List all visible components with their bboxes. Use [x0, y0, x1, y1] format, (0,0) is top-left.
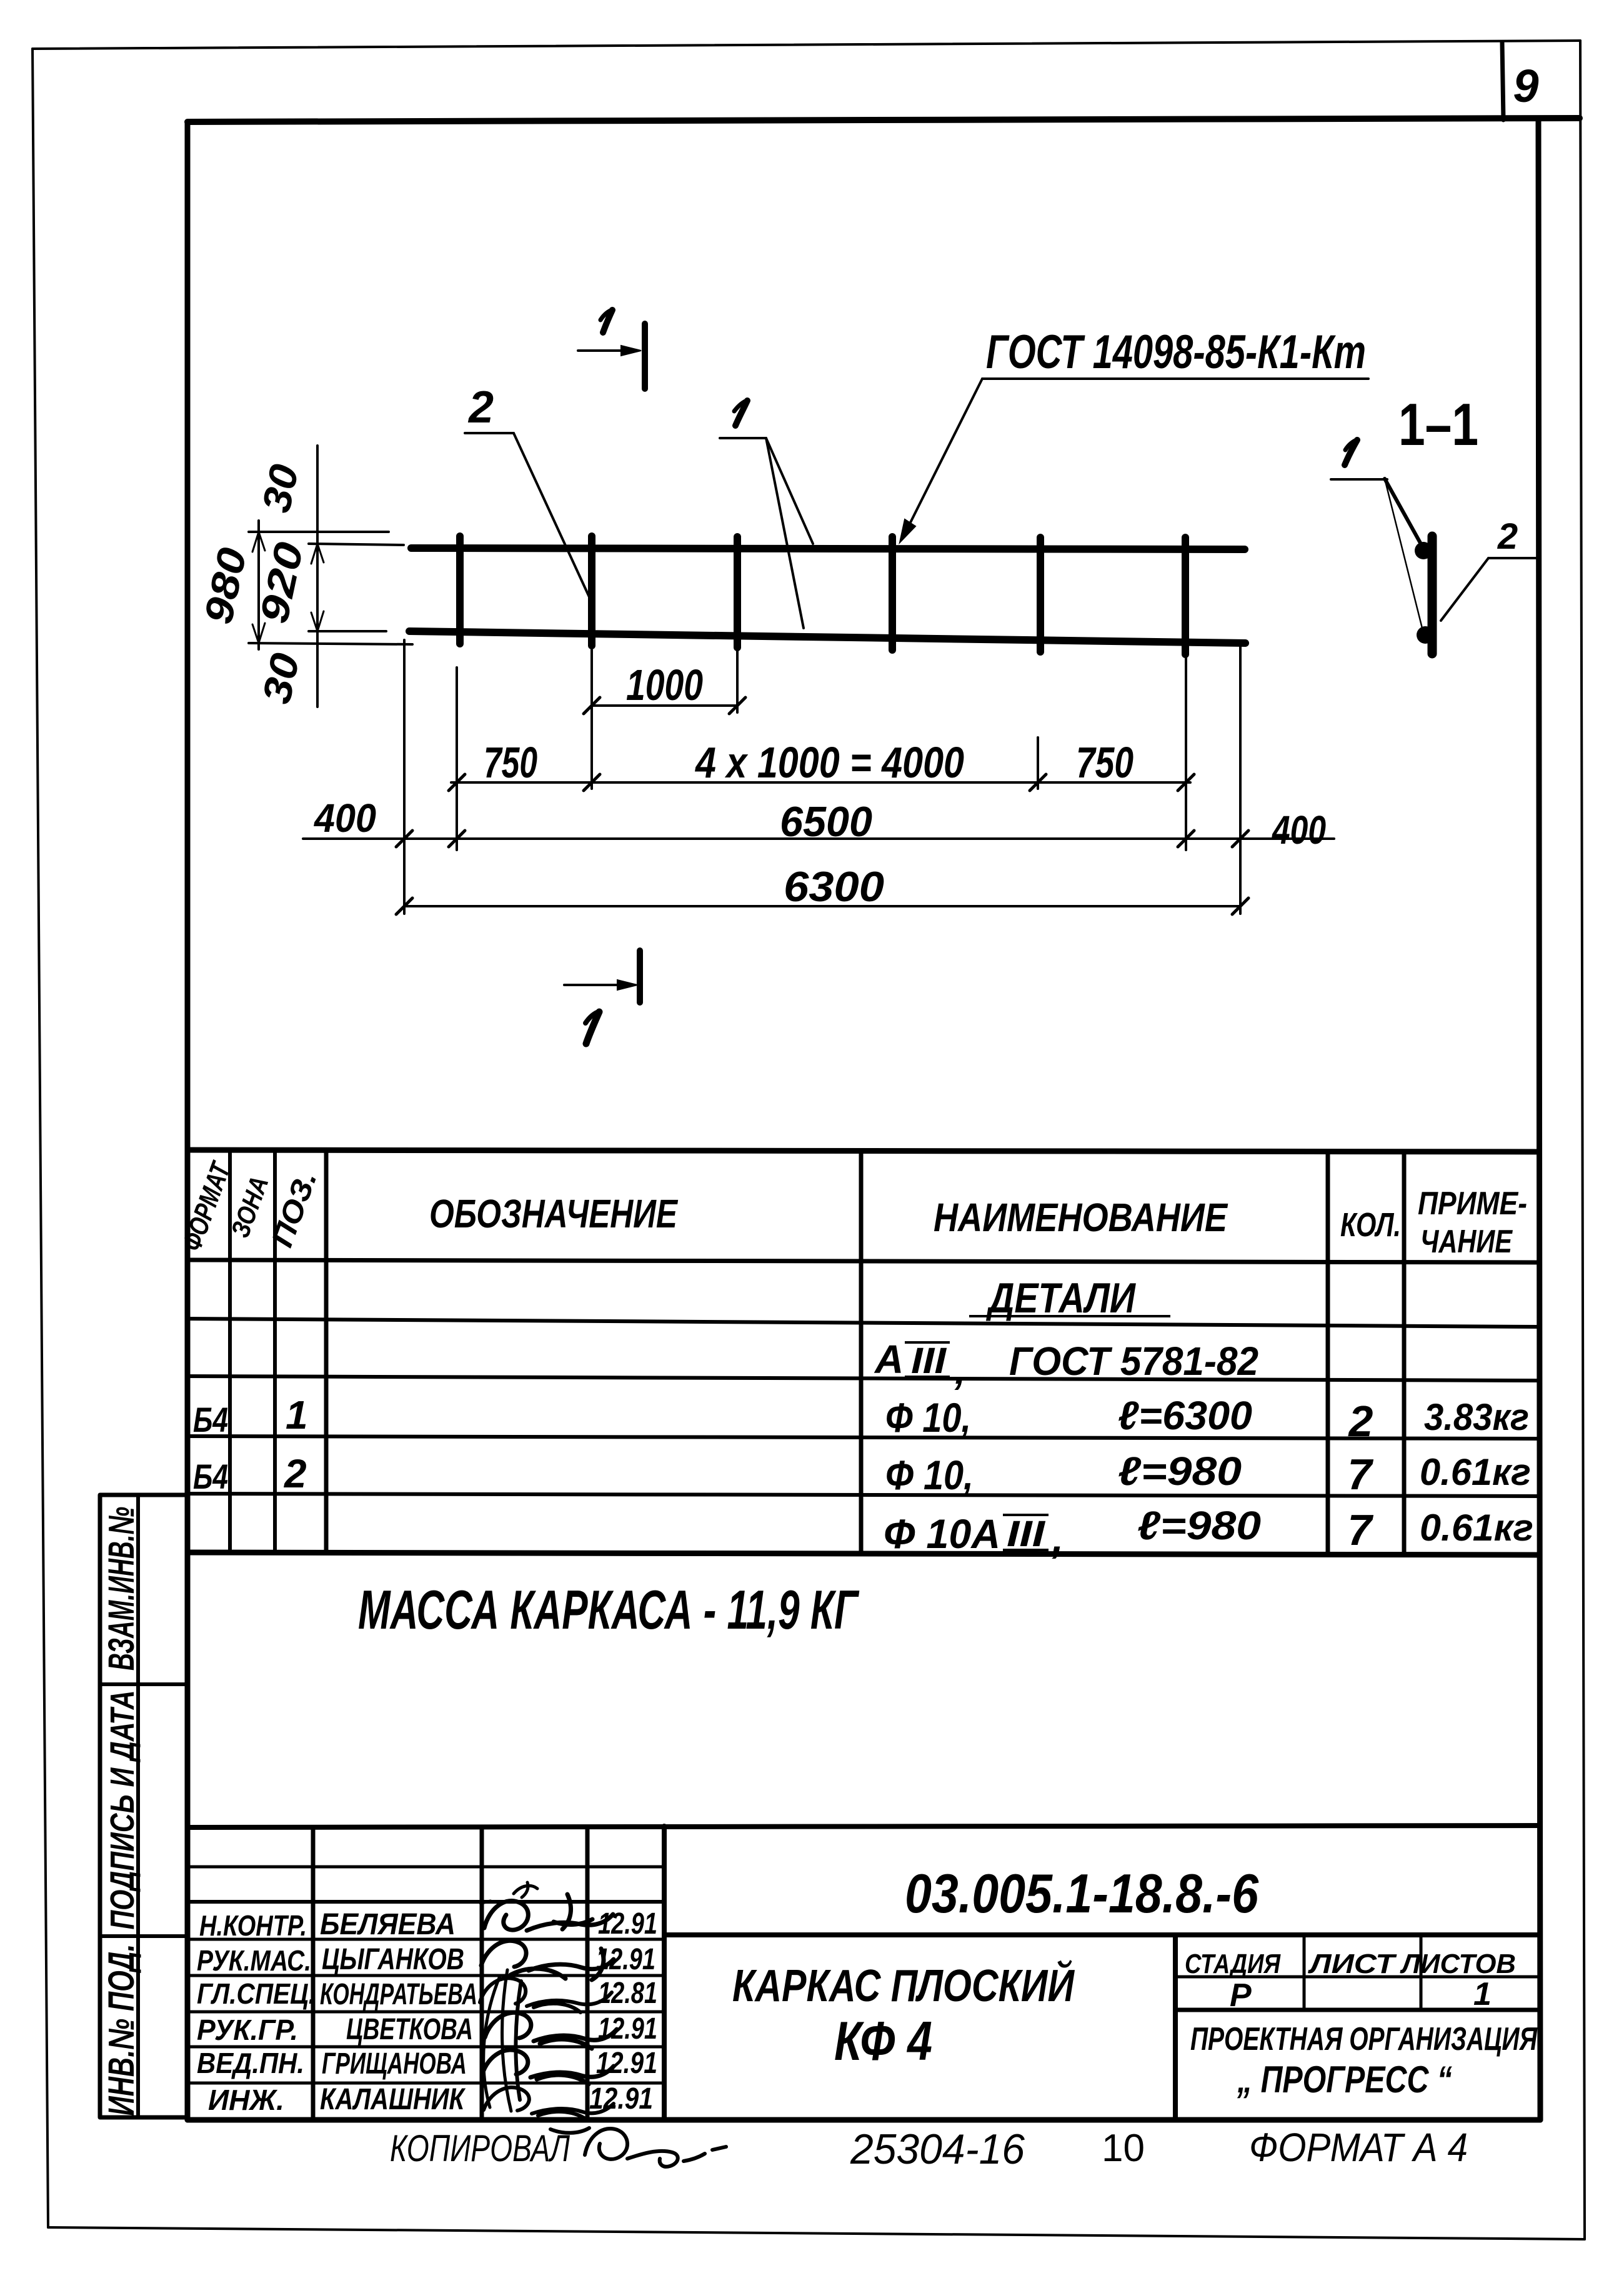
svg-text:400: 400: [1271, 807, 1326, 852]
svg-text:Ф 10А: Ф 10А: [884, 1511, 1000, 1557]
svg-text:СТАДИЯ: СТАДИЯ: [1185, 1949, 1281, 1979]
svg-text:1000: 1000: [626, 661, 703, 709]
svg-text:КАРКАС ПЛОСКИЙ: КАРКАС ПЛОСКИЙ: [732, 1959, 1075, 2011]
svg-text:А: А: [874, 1337, 904, 1382]
svg-text:,: ,: [954, 1347, 966, 1392]
svg-text:ЧАНИЕ: ЧАНИЕ: [1420, 1224, 1513, 1260]
svg-text:7: 7: [1348, 1506, 1374, 1554]
svg-text:1–1: 1–1: [1398, 391, 1478, 458]
svg-text:3.83кг: 3.83кг: [1424, 1396, 1529, 1438]
svg-text:ПРИМЕ-: ПРИМЕ-: [1418, 1186, 1527, 1222]
svg-text:ОБОЗНАЧЕНИЕ: ОБОЗНАЧЕНИЕ: [429, 1191, 679, 1236]
svg-text:2: 2: [1497, 516, 1518, 557]
svg-text:КФ 4: КФ 4: [834, 2010, 932, 2072]
svg-text:ГРИЩАНОВА: ГРИЩАНОВА: [322, 2047, 467, 2081]
svg-text:12.81: 12.81: [598, 1977, 657, 2010]
svg-text:КОЛ.: КОЛ.: [1340, 1206, 1401, 1244]
svg-text:400: 400: [313, 796, 376, 841]
svg-text:ГОСТ 5781-82: ГОСТ 5781-82: [1009, 1339, 1258, 1384]
svg-text:ЦЫГАНКОВ: ЦЫГАНКОВ: [322, 1943, 464, 1976]
svg-text:ДЕТАЛИ: ДЕТАЛИ: [986, 1274, 1137, 1322]
svg-text:2: 2: [1348, 1397, 1373, 1446]
svg-text:12.91: 12.91: [598, 1907, 657, 1941]
svg-text:1: 1: [286, 1392, 308, 1437]
svg-text:9: 9: [1513, 60, 1538, 112]
svg-text:III: III: [1007, 1514, 1046, 1554]
svg-text:25304-16: 25304-16: [850, 2126, 1025, 2173]
svg-text:6500: 6500: [780, 798, 872, 846]
svg-text:ЦВЕТКОВА: ЦВЕТКОВА: [346, 2013, 473, 2046]
svg-text:Р: Р: [1230, 1977, 1252, 2014]
svg-text:Б4: Б4: [193, 1400, 228, 1439]
svg-text:ГЛ.СПЕЦ.: ГЛ.СПЕЦ.: [197, 1977, 316, 2010]
svg-text:МАССА КАРКАСА - 11,9 КГ: МАССА КАРКАСА - 11,9 КГ: [358, 1579, 860, 1641]
svg-text:6300: 6300: [784, 863, 884, 911]
svg-text:7: 7: [1348, 1450, 1374, 1499]
svg-text:Ф 10,: Ф 10,: [885, 1394, 971, 1441]
svg-text:„ ПРОГРЕСС “: „ ПРОГРЕСС “: [1237, 2059, 1452, 2101]
svg-text:ВЕД.ПН.: ВЕД.ПН.: [197, 2047, 304, 2079]
svg-text:КАЛАШНИК: КАЛАШНИК: [320, 2083, 466, 2116]
svg-text:РУК.МАС.: РУК.МАС.: [197, 1944, 311, 1977]
svg-text:БЕЛЯЕВА: БЕЛЯЕВА: [320, 1908, 456, 1941]
svg-text:Ф 10,: Ф 10,: [885, 1452, 974, 1498]
svg-text:750: 750: [484, 738, 537, 787]
svg-text:1: 1: [1473, 1976, 1492, 2012]
svg-text:Б4: Б4: [193, 1457, 228, 1496]
svg-text:4 x 1000 = 4000: 4 x 1000 = 4000: [694, 738, 964, 787]
svg-text:ИНЖ.: ИНЖ.: [208, 2084, 284, 2116]
svg-text:ПОДПИСЬ И ДАТА: ПОДПИСЬ И ДАТА: [104, 1691, 141, 1930]
svg-text:ℓ=980: ℓ=980: [1137, 1503, 1261, 1548]
svg-text:ЛИСТОВ: ЛИСТОВ: [1400, 1949, 1516, 1979]
svg-text:03.005.1-18.8.-6: 03.005.1-18.8.-6: [905, 1862, 1259, 1924]
svg-text:КОНДРАТЬЕВА: КОНДРАТЬЕВА: [320, 1978, 477, 2011]
svg-text:НАИМЕНОВАНИЕ: НАИМЕНОВАНИЕ: [934, 1195, 1228, 1240]
svg-text:ℓ=6300: ℓ=6300: [1118, 1393, 1252, 1438]
svg-text:2: 2: [467, 382, 494, 432]
svg-text:Н.КОНТР.: Н.КОНТР.: [199, 1909, 307, 1942]
svg-text:ЛИСТ: ЛИСТ: [1308, 1949, 1397, 1979]
svg-text:0.61кг: 0.61кг: [1420, 1451, 1531, 1493]
svg-text:ФОРМАТ А 4: ФОРМАТ А 4: [1249, 2125, 1468, 2170]
svg-text:750: 750: [1076, 738, 1133, 787]
svg-text:ГОСТ 14098-85-К1-Кт: ГОСТ 14098-85-К1-Кт: [986, 326, 1366, 379]
svg-text:,: ,: [1052, 1516, 1064, 1561]
svg-text:ИНВ.№ ПОД.: ИНВ.№ ПОД.: [101, 1944, 142, 2116]
svg-text:ПРОЕКТНАЯ ОРГАНИЗАЦИЯ: ПРОЕКТНАЯ ОРГАНИЗАЦИЯ: [1190, 2021, 1538, 2057]
svg-text:ℓ=980: ℓ=980: [1118, 1449, 1242, 1494]
svg-text:РУК.ГР.: РУК.ГР.: [197, 2014, 298, 2046]
svg-text:12.91: 12.91: [598, 2012, 657, 2046]
svg-text:2: 2: [284, 1451, 307, 1496]
svg-text:ВЗАМ.ИНВ.№: ВЗАМ.ИНВ.№: [101, 1507, 142, 1671]
svg-text:0.61кг: 0.61кг: [1420, 1507, 1533, 1549]
svg-text:10: 10: [1102, 2127, 1145, 2170]
svg-text:КОПИРОВАЛ: КОПИРОВАЛ: [390, 2127, 570, 2169]
svg-text:III: III: [911, 1341, 947, 1381]
